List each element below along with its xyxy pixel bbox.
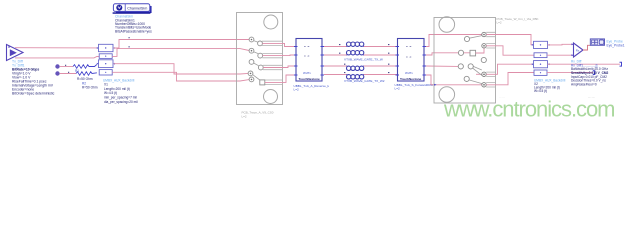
S-parameter block SNP2 bbox=[396, 39, 427, 82]
connector J1 mounting hole top bbox=[264, 15, 278, 29]
X2 label text bbox=[534, 78, 566, 93]
wire Rx to eye probe bbox=[583, 45, 590, 50]
pin number marks bbox=[129, 36, 130, 39]
termination bracket T2 bbox=[593, 71, 595, 75]
svg-text:BitsAtPassesEnable=yes: BitsAtPassesEnable=yes bbox=[115, 29, 152, 33]
pin number dots bbox=[339, 44, 389, 73]
connector J1 pad 2 bbox=[258, 53, 263, 58]
svg-text:= ·=: = ·= bbox=[406, 44, 412, 48]
wire boxD to connector P5 bbox=[112, 72, 249, 81]
X1 label text bbox=[103, 78, 138, 104]
connector J2 tab channels bbox=[486, 32, 495, 87]
ChannelSim controller U0 button bbox=[113, 4, 150, 13]
connector J1 pad 4 bbox=[258, 65, 263, 70]
svg-text:L=2: L=2 bbox=[395, 87, 401, 91]
svg-text:Eye_Probe1: Eye_Probe1 bbox=[607, 44, 625, 48]
inductor L2 bbox=[347, 51, 364, 56]
svg-text:TouchNextone: TouchNextone bbox=[299, 77, 321, 81]
wire X2 box2 to Rx bbox=[547, 54, 574, 56]
transmitter Tx_Diff1 bbox=[7, 45, 24, 61]
node junction 2 bbox=[55, 71, 59, 75]
via model X2 box 1 bbox=[532, 41, 550, 48]
connector J2 body bbox=[434, 18, 496, 104]
svg-text:UMBX_AUX_Backdrill: UMBX_AUX_Backdrill bbox=[534, 78, 566, 82]
wire box4 to termination bbox=[547, 72, 593, 74]
svg-text:— ·—: — ·— bbox=[588, 97, 595, 100]
ChannelSim underline bar bbox=[113, 12, 151, 14]
wire J2 out 4 bbox=[486, 73, 534, 85]
wire J1 to S4P line2 bbox=[263, 54, 294, 57]
svg-text:R=50 Ohm: R=50 Ohm bbox=[82, 86, 98, 90]
eye probe icon bbox=[590, 39, 604, 45]
svg-text:= ·=: = ·= bbox=[304, 44, 310, 48]
svg-text:L=2: L=2 bbox=[497, 21, 502, 25]
svg-text:UBBL_TxA_S_ForwardFRC: UBBL_TxA_S_ForwardFRC bbox=[395, 83, 434, 87]
connector J1 pin 3 bbox=[248, 71, 260, 80]
via model box C bbox=[97, 60, 115, 68]
wire Tx N out bbox=[15, 56, 99, 58]
resistor R2 bbox=[76, 72, 97, 76]
svg-text:VTXB_WAVE_GATE_TX_W2: VTXB_WAVE_GATE_TX_W2 bbox=[344, 79, 385, 83]
svg-text:VTXB_WAVE_GATE_TX_W: VTXB_WAVE_GATE_TX_W bbox=[344, 58, 383, 62]
wire J2 out 1 bbox=[486, 35, 533, 45]
via model box D bbox=[99, 70, 112, 75]
wire line2 right bbox=[364, 54, 397, 56]
via model box B bbox=[99, 54, 112, 59]
wire SNP2 to J2 line4 bbox=[426, 75, 482, 85]
svg-text:dia_per_spacing=20 mil: dia_per_spacing=20 mil bbox=[104, 100, 138, 104]
connector J1 pin 1 bbox=[249, 37, 258, 42]
svg-text:WdTx: WdTx bbox=[303, 71, 311, 75]
connector J1 body bbox=[237, 13, 283, 105]
junction tick bbox=[434, 84, 436, 86]
connector J1 pin 2 bbox=[249, 48, 258, 53]
wire line4 right bbox=[364, 74, 397, 76]
svg-text:WdTx: WdTx bbox=[405, 71, 413, 75]
wire box3 to termination bbox=[548, 63, 621, 65]
svg-text:L=2: L=2 bbox=[242, 114, 247, 118]
svg-text:L=2: L=2 bbox=[294, 88, 300, 92]
svg-text:= ·=: = ·= bbox=[406, 55, 412, 59]
connector J2 pad square bbox=[470, 48, 484, 56]
connector J1 pad 1 bbox=[258, 41, 263, 46]
svg-text:PCB_Trace_W_Cm_l_Via_FBK: PCB_Trace_W_Cm_l_Via_FBK bbox=[497, 17, 539, 21]
wire line2 left bbox=[324, 54, 347, 56]
svg-text:www.cntronics.com: www.cntronics.com bbox=[443, 97, 614, 122]
wire SNP2 to J2 line2 bbox=[426, 53, 470, 55]
S-parameter block SNP1 bbox=[294, 39, 324, 82]
wire node2 to R2 bbox=[60, 73, 76, 75]
connector J2 pin 4 bbox=[482, 83, 486, 87]
svg-text:AmpNoiseFloor=0: AmpNoiseFloor=0 bbox=[571, 82, 597, 86]
svg-text:·· ····: ·· ···· bbox=[499, 97, 505, 100]
wire line3 left bbox=[324, 65, 347, 67]
wire J1 to S4P line1 bbox=[262, 43, 294, 46]
connector J2 mounting hole top bbox=[439, 17, 455, 33]
svg-text:W=4.5 (t): W=4.5 (t) bbox=[534, 89, 547, 93]
svg-text:ChannelSim: ChannelSim bbox=[127, 6, 147, 10]
wire SNP2 to J2 line3 bbox=[426, 65, 458, 67]
connector J1 mounting hole bottom bbox=[264, 90, 278, 104]
connector J2 pad circles bbox=[464, 36, 469, 41]
via model X2 box 2 bbox=[534, 53, 547, 58]
svg-text:R=50 Ohm: R=50 Ohm bbox=[77, 77, 93, 81]
wire line4 left bbox=[324, 74, 347, 76]
node junction 1 bbox=[55, 64, 59, 68]
connector J1 pin 4 bbox=[249, 77, 254, 82]
wire SNP2 to J2 line1 bbox=[426, 35, 482, 47]
via model X1 box A bbox=[97, 44, 115, 51]
wire boxB to connector P2 bbox=[112, 49, 249, 57]
Rx_Diff parameter text bbox=[571, 60, 609, 87]
svg-text:= ·=: = ·= bbox=[304, 54, 310, 58]
Tx_Diff parameter text bbox=[12, 60, 55, 96]
connector J1 tab channels bbox=[262, 41, 283, 84]
wire line1 left bbox=[324, 46, 347, 48]
svg-text:BitOrder=Spec deterministic: BitOrder=Spec deterministic bbox=[12, 92, 55, 96]
inductor L4 bbox=[347, 75, 364, 80]
via model X2 box 3 bbox=[532, 61, 550, 68]
wire boxA to connector P1 bbox=[114, 40, 250, 49]
via model X2 box 4 bbox=[534, 70, 547, 75]
ChannelSim parameter text bbox=[115, 15, 152, 34]
wire boxC to connector P4 bbox=[114, 64, 249, 74]
wire Tx P out bbox=[15, 47, 99, 49]
svg-text:Rx: Rx bbox=[576, 48, 580, 52]
connector J1 pad 3 bbox=[249, 60, 259, 66]
svg-text:UBBL_TxA_A_Reverse_k: UBBL_TxA_A_Reverse_k bbox=[294, 84, 330, 88]
svg-text:TouchNextone: TouchNextone bbox=[400, 77, 422, 81]
wire J1 to S4P line3 bbox=[263, 66, 294, 68]
wire node1 to R1 bbox=[60, 66, 73, 68]
inductor L1 bbox=[347, 42, 364, 47]
wire line1 right bbox=[364, 46, 397, 48]
connector J1 pad square bbox=[260, 80, 265, 85]
resistor R1 bbox=[73, 65, 97, 69]
wire line3 right bbox=[364, 65, 397, 67]
receiver Rx_Diff1 bbox=[574, 43, 584, 57]
wire J2 out 3 bbox=[486, 64, 533, 74]
connector J2 pin 2 bbox=[482, 44, 486, 48]
connector J2 pin 1 bbox=[482, 32, 486, 36]
connector J2 mounting hole bottom bbox=[439, 87, 455, 103]
wire J1 to S4P line4 bbox=[265, 75, 294, 82]
connector J2 pin 3 bbox=[482, 72, 486, 76]
termination bracket T1 bbox=[620, 62, 622, 66]
wire J2 out 2 bbox=[486, 46, 534, 55]
connector J2 link lines bbox=[469, 36, 482, 84]
inductor L3 bbox=[347, 66, 364, 71]
wire X2 box1 to Rx bbox=[548, 43, 574, 46]
